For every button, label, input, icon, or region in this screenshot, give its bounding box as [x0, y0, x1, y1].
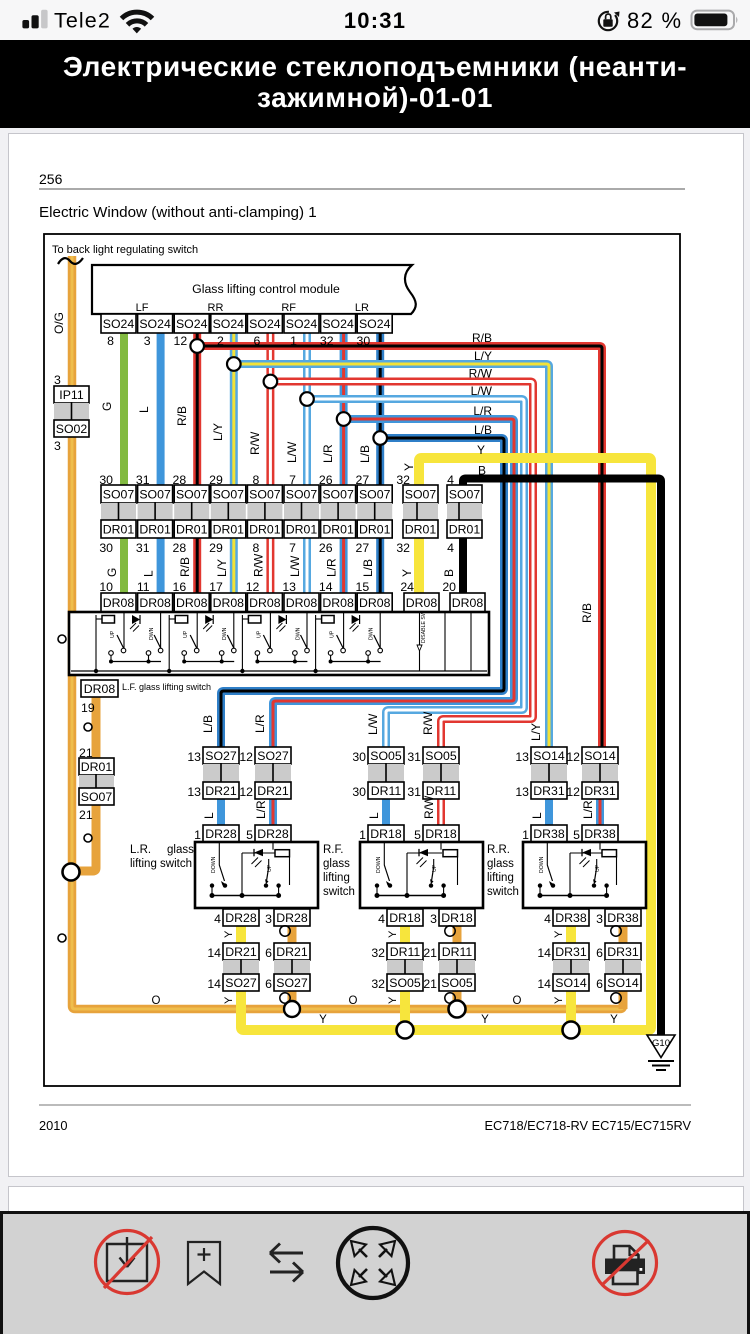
svg-text:L/R: L/R — [325, 558, 339, 577]
svg-text:SO05: SO05 — [441, 976, 473, 990]
svg-text:L: L — [142, 570, 156, 577]
svg-text:R/W: R/W — [469, 367, 493, 381]
svg-text:28: 28 — [173, 541, 187, 555]
svg-text:lifting: lifting — [487, 872, 514, 884]
svg-text:To back light regulating switc: To back light regulating switch — [52, 244, 198, 256]
svg-text:DR21: DR21 — [257, 784, 289, 798]
svg-text:1: 1 — [194, 828, 201, 842]
svg-text:DR11: DR11 — [442, 945, 473, 959]
svg-text:24: 24 — [400, 580, 414, 594]
svg-text:DR01: DR01 — [322, 522, 354, 536]
svg-text:DWN: DWN — [295, 627, 301, 640]
svg-text:32: 32 — [320, 334, 334, 348]
svg-text:10: 10 — [99, 580, 113, 594]
svg-text:B: B — [478, 464, 486, 478]
svg-text:SO07: SO07 — [449, 487, 481, 501]
svg-text:Y: Y — [553, 996, 565, 1004]
svg-text:DWN: DWN — [222, 627, 228, 640]
svg-text:DR31: DR31 — [533, 784, 565, 798]
svg-text:SO07: SO07 — [405, 487, 437, 501]
svg-text:5: 5 — [246, 828, 253, 842]
svg-text:6: 6 — [265, 946, 272, 960]
svg-text:SO07: SO07 — [81, 790, 113, 804]
svg-text:2010: 2010 — [39, 1118, 67, 1133]
svg-text:Y: Y — [553, 930, 565, 938]
svg-text:Tele2: Tele2 — [54, 9, 111, 33]
svg-text:3: 3 — [265, 912, 272, 926]
svg-text:4: 4 — [447, 541, 454, 555]
svg-text:13: 13 — [515, 750, 529, 764]
svg-text:5: 5 — [414, 828, 421, 842]
svg-text:30: 30 — [357, 334, 371, 348]
svg-text:SO14: SO14 — [533, 749, 565, 763]
svg-text:SO24: SO24 — [139, 317, 171, 331]
svg-text:DR08: DR08 — [286, 596, 318, 610]
svg-text:DR38: DR38 — [607, 911, 639, 925]
svg-text:DR01: DR01 — [139, 522, 171, 536]
svg-text:30: 30 — [99, 541, 113, 555]
svg-text:DR18: DR18 — [370, 827, 402, 841]
svg-text:DR31: DR31 — [607, 945, 639, 959]
svg-text:glass: glass — [323, 858, 350, 870]
svg-text:SO14: SO14 — [607, 976, 639, 990]
svg-text:SO07: SO07 — [139, 487, 171, 501]
svg-text:SO05: SO05 — [389, 976, 421, 990]
svg-text:DR08: DR08 — [103, 596, 135, 610]
svg-text:LR: LR — [355, 302, 369, 314]
svg-text:32: 32 — [371, 946, 385, 960]
svg-text:R/W: R/W — [422, 795, 436, 819]
svg-text:Y: Y — [481, 1014, 489, 1026]
svg-text:Y: Y — [477, 443, 485, 457]
svg-text:14: 14 — [537, 946, 551, 960]
svg-text:8: 8 — [253, 541, 260, 555]
svg-text:DR01: DR01 — [449, 522, 481, 536]
svg-text:SO07: SO07 — [249, 487, 281, 501]
svg-text:15: 15 — [356, 580, 370, 594]
svg-text:6: 6 — [265, 977, 272, 991]
svg-text:17: 17 — [209, 580, 223, 594]
svg-text:DR08: DR08 — [84, 682, 116, 696]
svg-text:13: 13 — [187, 750, 201, 764]
svg-text:SO07: SO07 — [286, 487, 318, 501]
svg-text:DR38: DR38 — [584, 827, 616, 841]
svg-text:2: 2 — [217, 334, 224, 348]
svg-text:13: 13 — [187, 785, 201, 799]
svg-text:UP: UP — [256, 630, 262, 638]
svg-text:L/B: L/B — [358, 445, 372, 463]
svg-text:11: 11 — [137, 580, 150, 594]
svg-text:Glass lifting control module: Glass lifting control module — [192, 282, 340, 296]
svg-text:DR21: DR21 — [225, 945, 257, 959]
svg-text:R.F.: R.F. — [323, 844, 343, 856]
svg-text:LF: LF — [136, 302, 149, 314]
svg-text:SO24: SO24 — [103, 317, 135, 331]
svg-text:10:31: 10:31 — [344, 8, 406, 33]
svg-text:L/W: L/W — [366, 713, 380, 735]
svg-text:DR01: DR01 — [103, 522, 135, 536]
svg-text:DR21: DR21 — [205, 784, 237, 798]
svg-text:DOWN: DOWN — [376, 856, 382, 873]
svg-text:12: 12 — [239, 750, 253, 764]
svg-text:SO07: SO07 — [103, 487, 135, 501]
svg-text:UP: UP — [330, 630, 336, 638]
svg-text:SO05: SO05 — [425, 749, 457, 763]
svg-text:16: 16 — [173, 580, 187, 594]
svg-text:R/B: R/B — [472, 331, 492, 345]
svg-text:G: G — [100, 402, 114, 411]
svg-text:1: 1 — [290, 334, 297, 348]
svg-text:19: 19 — [81, 701, 95, 715]
svg-text:Electric Window (without anti-: Electric Window (without anti-clamping) … — [39, 204, 317, 221]
svg-text:IP11: IP11 — [59, 388, 84, 402]
svg-text:256: 256 — [39, 171, 63, 187]
svg-text:DR11: DR11 — [390, 945, 421, 959]
svg-text:glass: glass — [167, 844, 194, 856]
svg-text:L/W: L/W — [288, 555, 302, 577]
svg-text:26: 26 — [319, 541, 333, 555]
svg-text:3: 3 — [54, 373, 61, 387]
svg-text:DR08: DR08 — [406, 596, 438, 610]
svg-text:L: L — [530, 812, 544, 819]
svg-text:B: B — [442, 569, 456, 577]
svg-text:3: 3 — [596, 912, 603, 926]
svg-text:R/B: R/B — [175, 406, 189, 426]
svg-text:SO07: SO07 — [213, 487, 245, 501]
svg-text:12: 12 — [566, 750, 580, 764]
svg-text:DR28: DR28 — [276, 911, 308, 925]
svg-text:Y: Y — [610, 1014, 618, 1026]
svg-text:DISABLE SW: DISABLE SW — [421, 611, 427, 643]
svg-text:glass: glass — [487, 858, 514, 870]
svg-text:DOWN: DOWN — [539, 856, 545, 873]
svg-text:SO27: SO27 — [205, 749, 237, 763]
svg-text:Y: Y — [223, 996, 235, 1004]
svg-text:O/G: O/G — [52, 312, 66, 334]
svg-text:R.R.: R.R. — [487, 844, 510, 856]
svg-text:UP: UP — [110, 630, 116, 638]
svg-text:L/Y: L/Y — [529, 723, 543, 741]
svg-text:32: 32 — [371, 977, 385, 991]
svg-text:SO07: SO07 — [359, 487, 391, 501]
svg-text:SO07: SO07 — [176, 487, 208, 501]
svg-text:lifting switch: lifting switch — [130, 858, 192, 870]
svg-text:DWN: DWN — [149, 627, 155, 640]
svg-text:DWN: DWN — [369, 627, 375, 640]
svg-text:DR28: DR28 — [225, 911, 257, 925]
svg-text:31: 31 — [407, 785, 421, 799]
svg-text:RR: RR — [208, 302, 224, 314]
svg-text:EC718/EC718-RV EC715/EC715RV: EC718/EC718-RV EC715/EC715RV — [484, 1118, 691, 1133]
svg-text:DR31: DR31 — [584, 784, 616, 798]
svg-text:SO27: SO27 — [225, 976, 257, 990]
svg-text:32: 32 — [396, 541, 410, 555]
svg-text:30: 30 — [352, 785, 366, 799]
svg-text:DOWN: DOWN — [211, 856, 217, 873]
svg-text:SO24: SO24 — [359, 317, 391, 331]
svg-text:DR18: DR18 — [389, 911, 421, 925]
svg-text:6: 6 — [254, 334, 261, 348]
svg-text:R/W: R/W — [421, 711, 435, 735]
svg-text:27: 27 — [356, 541, 370, 555]
svg-text:L/W: L/W — [285, 441, 299, 463]
svg-text:6: 6 — [596, 977, 603, 991]
svg-text:L/Y: L/Y — [215, 559, 229, 577]
svg-text:DR28: DR28 — [205, 827, 237, 841]
svg-text:DR28: DR28 — [257, 827, 289, 841]
svg-text:L.F. glass lifting switch: L.F. glass lifting switch — [122, 682, 211, 692]
svg-text:12: 12 — [239, 785, 253, 799]
svg-text:4: 4 — [214, 912, 221, 926]
svg-text:SO27: SO27 — [276, 976, 308, 990]
svg-text:SO07: SO07 — [322, 487, 354, 501]
svg-text:G10: G10 — [652, 1038, 670, 1049]
svg-text:O: O — [349, 995, 358, 1007]
svg-text:12: 12 — [566, 785, 580, 799]
svg-text:14: 14 — [207, 977, 221, 991]
svg-text:DR08: DR08 — [359, 596, 391, 610]
svg-text:1: 1 — [359, 828, 366, 842]
svg-text:L/Y: L/Y — [211, 423, 225, 441]
svg-text:DR38: DR38 — [555, 911, 587, 925]
svg-text:31: 31 — [136, 541, 150, 555]
svg-text:L/W: L/W — [471, 384, 493, 398]
svg-text:R/W: R/W — [248, 431, 262, 455]
svg-text:L/B: L/B — [201, 715, 215, 733]
svg-text:31: 31 — [407, 750, 421, 764]
svg-text:SO05: SO05 — [370, 749, 402, 763]
svg-text:R/W: R/W — [251, 553, 265, 577]
svg-text:82 %: 82 % — [627, 8, 682, 33]
svg-text:12: 12 — [174, 334, 188, 348]
svg-text:DR01: DR01 — [249, 522, 281, 536]
svg-text:DR01: DR01 — [213, 522, 245, 536]
svg-text:L/R: L/R — [321, 444, 335, 463]
svg-text:DR08: DR08 — [452, 596, 484, 610]
svg-text:DR08: DR08 — [322, 596, 354, 610]
svg-text:DR18: DR18 — [425, 827, 457, 841]
svg-text:1: 1 — [522, 828, 529, 842]
svg-text:13: 13 — [282, 580, 296, 594]
svg-text:DR08: DR08 — [213, 596, 245, 610]
svg-text:L/B: L/B — [361, 559, 375, 577]
svg-text:DR01: DR01 — [176, 522, 208, 536]
svg-text:20: 20 — [442, 580, 456, 594]
svg-text:DR01: DR01 — [286, 522, 318, 536]
svg-text:DR01: DR01 — [359, 522, 391, 536]
svg-text:DR08: DR08 — [249, 596, 281, 610]
svg-text:DR08: DR08 — [176, 596, 208, 610]
svg-text:switch: switch — [323, 886, 355, 898]
svg-text:21: 21 — [79, 808, 93, 822]
svg-text:6: 6 — [596, 946, 603, 960]
svg-text:O: O — [152, 995, 161, 1007]
svg-text:SO24: SO24 — [322, 317, 354, 331]
svg-text:SO24: SO24 — [176, 317, 208, 331]
svg-text:4: 4 — [378, 912, 385, 926]
svg-text:13: 13 — [515, 785, 529, 799]
svg-text:3: 3 — [430, 912, 437, 926]
svg-text:SO24: SO24 — [286, 317, 318, 331]
svg-text:G: G — [105, 568, 119, 577]
svg-text:L/R: L/R — [253, 714, 267, 733]
svg-text:L: L — [137, 406, 151, 413]
svg-text:DR08: DR08 — [139, 596, 171, 610]
svg-text:29: 29 — [209, 541, 223, 555]
svg-text:L/R: L/R — [581, 800, 595, 819]
svg-text:4: 4 — [544, 912, 551, 926]
svg-text:R/B: R/B — [580, 603, 594, 623]
svg-text:3: 3 — [54, 439, 61, 453]
svg-text:L/R: L/R — [254, 800, 268, 819]
svg-text:L: L — [202, 812, 216, 819]
svg-text:SO14: SO14 — [584, 749, 616, 763]
svg-text:14: 14 — [319, 580, 333, 594]
svg-text:21: 21 — [423, 946, 437, 960]
svg-text:5: 5 — [573, 828, 580, 842]
svg-text:DR38: DR38 — [533, 827, 565, 841]
svg-text:DR01: DR01 — [405, 522, 437, 536]
svg-text:Y: Y — [387, 930, 399, 938]
svg-text:Y: Y — [402, 463, 416, 471]
svg-text:Y: Y — [223, 930, 235, 938]
svg-text:30: 30 — [352, 750, 366, 764]
svg-text:L: L — [367, 812, 381, 819]
svg-text:7: 7 — [289, 541, 296, 555]
svg-text:SO14: SO14 — [555, 976, 587, 990]
svg-text:8: 8 — [107, 334, 114, 348]
svg-text:14: 14 — [207, 946, 221, 960]
svg-text:DR01: DR01 — [81, 760, 113, 774]
svg-text:lifting: lifting — [323, 872, 350, 884]
svg-text:DR21: DR21 — [276, 945, 308, 959]
svg-text:L.R.: L.R. — [130, 844, 151, 856]
svg-text:R/B: R/B — [178, 557, 192, 577]
svg-text:RF: RF — [281, 302, 296, 314]
svg-text:SO02: SO02 — [56, 422, 88, 436]
svg-text:SO24: SO24 — [213, 317, 245, 331]
svg-text:Y: Y — [319, 1014, 327, 1026]
svg-text:L/Y: L/Y — [474, 349, 492, 363]
svg-text:L/B: L/B — [474, 423, 492, 437]
svg-text:DR11: DR11 — [371, 784, 402, 798]
svg-text:Y: Y — [387, 996, 399, 1004]
svg-text:12: 12 — [246, 580, 260, 594]
svg-text:L/R: L/R — [473, 404, 492, 418]
svg-text:DR31: DR31 — [555, 945, 587, 959]
svg-text:SO27: SO27 — [257, 749, 289, 763]
svg-text:DR18: DR18 — [441, 911, 473, 925]
svg-text:switch: switch — [487, 886, 519, 898]
svg-text:21: 21 — [423, 977, 437, 991]
svg-text:Y: Y — [400, 569, 414, 577]
svg-text:UP: UP — [183, 630, 189, 638]
svg-text:SO24: SO24 — [249, 317, 281, 331]
svg-text:O: O — [513, 995, 522, 1007]
svg-text:3: 3 — [144, 334, 151, 348]
svg-text:14: 14 — [537, 977, 551, 991]
